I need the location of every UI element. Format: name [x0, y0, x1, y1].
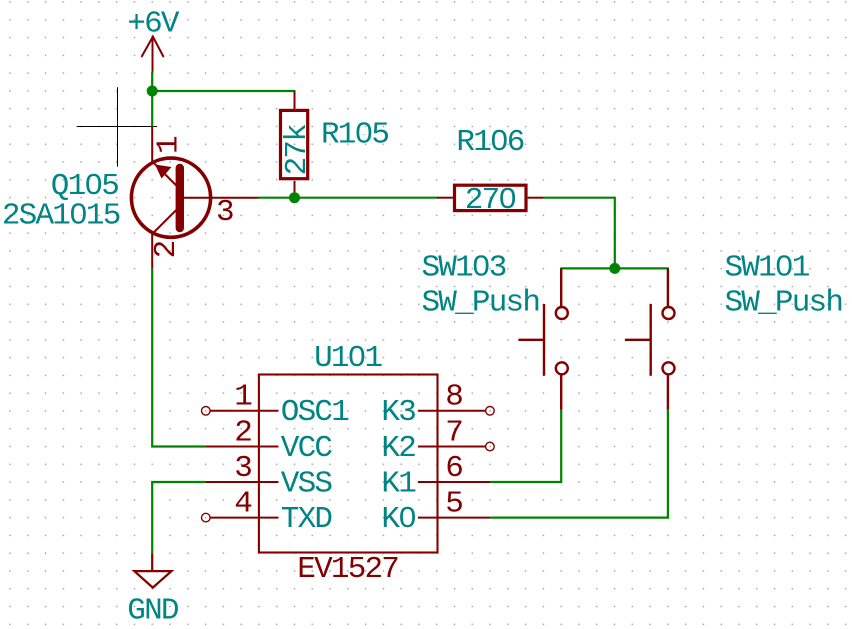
svg-text:SW_Push: SW_Push — [725, 286, 843, 321]
wire +6V vertical to junction — [151, 72, 153, 91]
svg-text:OSC1: OSC1 — [281, 395, 349, 430]
svg-text:VSS: VSS — [281, 466, 333, 501]
svg-text:270: 270 — [465, 183, 516, 218]
svg-text:K2: K2 — [381, 431, 415, 466]
switch SW103 — [518, 268, 567, 409]
svg-text:1: 1 — [234, 380, 252, 415]
svg-text:1: 1 — [152, 136, 187, 154]
pin 1 OSC1 — [202, 380, 350, 431]
svg-text:7: 7 — [445, 415, 462, 450]
wire Q105 collector row — [259, 197, 437, 199]
wire Q105 collector to VCC — [152, 268, 205, 446]
svg-text:K3: K3 — [381, 395, 415, 430]
svg-text:SW_Push: SW_Push — [422, 286, 540, 321]
svg-text:VCC: VCC — [281, 431, 333, 466]
svg-text:5: 5 — [445, 486, 462, 521]
wire junction down to Q105 emitter pin — [151, 91, 153, 127]
resistor R106 — [437, 185, 543, 210]
resistor R105 — [281, 91, 308, 198]
transistor Q105 — [131, 127, 259, 269]
pin 5 K0 — [381, 486, 490, 537]
wire R106 to corner and down to junction — [543, 198, 614, 269]
pin 2 VCC — [206, 415, 333, 466]
pin 3 VSS — [206, 451, 333, 502]
wire across switches — [561, 267, 668, 269]
svg-text:GND: GND — [127, 594, 179, 629]
svg-text:K0: K0 — [381, 502, 415, 537]
svg-text:27k: 27k — [280, 124, 315, 176]
IC U101 — [259, 375, 438, 553]
junction switches — [609, 263, 620, 274]
svg-text:TXD: TXD — [281, 502, 333, 537]
ground — [134, 554, 171, 588]
pin 6 K1 — [381, 451, 490, 502]
switch SW101 — [625, 268, 675, 409]
zero glyph dot patches — [75, 127, 787, 519]
svg-text:EV1527: EV1527 — [297, 552, 398, 587]
svg-text:K1: K1 — [381, 466, 416, 501]
svg-text:6: 6 — [445, 451, 462, 486]
svg-text:3: 3 — [234, 451, 251, 486]
svg-text:8: 8 — [445, 380, 462, 415]
wire SW101 to K0 — [490, 410, 668, 518]
svg-text:U101: U101 — [314, 341, 382, 376]
wire junction to R105 top — [152, 90, 294, 92]
svg-text:SW103: SW103 — [422, 251, 506, 286]
wire VSS to GND — [152, 482, 205, 554]
power symbol +6V arrow — [142, 37, 164, 73]
wire SW103 to K1 — [490, 410, 561, 482]
svg-text:2: 2 — [149, 241, 184, 258]
pin 7 K2 — [381, 415, 494, 466]
junction top — [147, 86, 158, 97]
svg-text:SW101: SW101 — [725, 251, 810, 286]
cursor crosshair — [77, 87, 157, 166]
pin 8 K3 — [381, 380, 494, 431]
svg-text:4: 4 — [234, 486, 252, 521]
svg-text:R105: R105 — [321, 117, 388, 152]
svg-text:3: 3 — [216, 195, 233, 230]
svg-text:2SA1015: 2SA1015 — [2, 199, 120, 234]
svg-text:R106: R106 — [456, 125, 523, 160]
pin 4 TXD — [202, 486, 333, 537]
junction R105 bottom — [289, 192, 300, 203]
svg-text:2: 2 — [234, 415, 251, 450]
